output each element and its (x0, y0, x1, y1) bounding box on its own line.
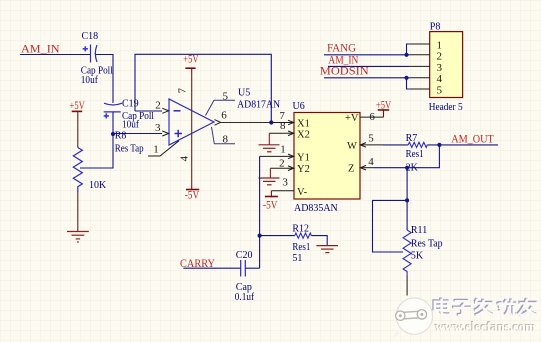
wire AM_IN to C18 (20, 54, 90, 56)
svg-text:Res Tap: Res Tap (115, 144, 144, 155)
pin 2 P8 (410, 51, 442, 63)
header P8 body (429, 21, 463, 113)
wire AM_IN (P8) (328, 65, 410, 67)
wire loop to R11 tap (373, 200, 408, 252)
svg-text:X1: X1 (297, 119, 310, 130)
value Cap 0.1uf (C20) (235, 282, 255, 303)
pin Y2 U6 (270, 158, 309, 176)
pin 5 P8 (410, 84, 443, 96)
pin 3 arrow U5 (162, 131, 168, 136)
svg-text:2: 2 (279, 158, 285, 170)
pin W U6 (347, 133, 383, 153)
svg-text:0.1uf: 0.1uf (235, 292, 255, 303)
pin Z U6 (348, 156, 374, 175)
svg-text:Z: Z (348, 164, 354, 175)
wire Z node down to R11 (406, 168, 408, 201)
svg-text:5: 5 (223, 90, 229, 102)
svg-text:7: 7 (177, 88, 189, 94)
capacitor C18 (91, 45, 98, 63)
wire node to op-amp pin3 (113, 133, 162, 135)
wire C19 to junction node (112, 112, 114, 134)
wire R11 bottom stub (406, 275, 408, 296)
svg-text:AD817AN: AD817AN (237, 99, 280, 110)
plus mark C18 (83, 46, 88, 51)
junction dot CARRY node (258, 234, 262, 238)
ground (X2) (259, 133, 280, 152)
svg-text:MODSIN: MODSIN (320, 64, 369, 78)
resistor R8 (73, 148, 82, 193)
power -5V (U6) (263, 191, 278, 212)
svg-text:R8: R8 (115, 130, 127, 141)
svg-text:2: 2 (155, 100, 161, 112)
pin 8 stub U5 (212, 127, 236, 145)
wire R7 to AM_OUT (427, 144, 498, 146)
junction dot W node (437, 143, 441, 147)
pin 2 arrow U5 (162, 108, 168, 113)
svg-text:Res Tap: Res Tap (411, 238, 443, 249)
power -5V (U5) (185, 186, 200, 202)
pin 1 P8 (410, 39, 442, 51)
svg-text:www.elecfans.com: www.elecfans.com (435, 320, 537, 335)
wire Y1 riser (259, 156, 261, 268)
junction dot at R8 tap node (111, 132, 115, 136)
resistor R7 (408, 142, 427, 147)
wire MODSIN (324, 76, 410, 89)
svg-text:-5V: -5V (263, 198, 278, 212)
svg-text:+5V: +5V (70, 98, 86, 112)
svg-text:10uf: 10uf (122, 120, 140, 131)
watermark url (434, 319, 537, 335)
resistor R12 (295, 233, 312, 238)
svg-text:C20: C20 (236, 250, 253, 261)
svg-text:AM_IN: AM_IN (21, 42, 60, 56)
svg-text:AM_OUT: AM_OUT (451, 132, 494, 146)
wire CARRY to C20 (183, 267, 240, 269)
junction dot U5 out (269, 120, 273, 124)
pin 1 stub U5 (148, 141, 179, 156)
wire W to R7 (383, 144, 408, 146)
svg-text:R12: R12 (292, 224, 309, 235)
ground (R12) (316, 246, 338, 253)
watermark text dianzifashaoyou (434, 297, 538, 315)
value Res1 2K (R7) (406, 149, 424, 173)
junction dot Z node (405, 166, 409, 170)
pin 4 P8 (410, 73, 443, 85)
svg-text:1: 1 (153, 143, 159, 155)
value Cap Poll 10uf (C19) (122, 111, 154, 131)
pin +V U6 (345, 111, 384, 124)
svg-text:X2: X2 (297, 129, 310, 140)
wire R11 top lead (406, 200, 408, 230)
pin 4 line U5 (179, 134, 192, 186)
svg-text:+5V: +5V (183, 52, 199, 66)
svg-text:+V: +V (345, 113, 359, 124)
svg-text:AD835AN: AD835AN (294, 203, 338, 214)
svg-text:5: 5 (437, 84, 443, 96)
wire W node down to Z (374, 145, 439, 168)
watermark logo (392, 298, 433, 340)
capacitor C20 (241, 260, 246, 277)
wire feedback to pin2 (135, 110, 162, 112)
svg-text:4: 4 (179, 156, 191, 162)
junction dot R11 top (405, 198, 409, 202)
svg-text:5: 5 (368, 133, 374, 145)
pin Y1 U6 (260, 143, 310, 163)
svg-text:P8: P8 (430, 21, 441, 32)
power +5V (U6) (376, 97, 392, 117)
pin X1 U6 (271, 110, 310, 130)
value Cap Poll 10uf (C18) (81, 66, 113, 87)
svg-text:Y1: Y1 (297, 152, 310, 163)
wire node down to R8 tap (80, 134, 113, 168)
svg-text:3: 3 (437, 62, 443, 74)
svg-text:R7: R7 (406, 133, 418, 144)
wire node to R12 (260, 235, 295, 237)
svg-text:C19: C19 (122, 98, 139, 109)
pin 3 P8 (410, 62, 443, 74)
svg-text:6: 6 (369, 111, 375, 123)
power +5V (R8) (70, 98, 86, 148)
ground (Y2) (259, 168, 280, 185)
wire FANG (324, 44, 410, 57)
pin 5 stub U5 (206, 90, 236, 115)
svg-text:5K: 5K (411, 251, 424, 262)
pin X2 U6 (269, 120, 310, 140)
svg-text:+5V: +5V (376, 97, 392, 111)
svg-text:U6: U6 (293, 101, 305, 112)
svg-text:10uf: 10uf (81, 75, 99, 86)
IC U6 body (293, 101, 361, 214)
svg-text:1: 1 (280, 143, 286, 155)
wire R12 to ground (311, 236, 327, 246)
svg-text:U5: U5 (238, 88, 250, 99)
wire feedback top (135, 54, 271, 122)
pin V- U6 (271, 176, 307, 198)
svg-text:4: 4 (368, 156, 374, 168)
resistor R11 (403, 230, 411, 275)
op-amp U5 (169, 99, 214, 145)
value Res Tap 5K (R11) (411, 238, 443, 261)
ground (R8) (67, 232, 89, 243)
svg-text:Res1: Res1 (292, 242, 310, 253)
wire R8 to ground (77, 192, 79, 232)
svg-text:R11: R11 (411, 225, 427, 236)
pin 7 line U5 (177, 73, 192, 134)
power +5V (U5) (183, 52, 199, 74)
svg-text:Header 5: Header 5 (429, 102, 463, 113)
plus mark C19 (104, 113, 109, 118)
svg-text:V-: V- (297, 187, 308, 198)
svg-text:-5V: -5V (185, 188, 200, 202)
svg-text:10K: 10K (89, 180, 107, 191)
svg-text:8: 8 (280, 120, 286, 132)
svg-text:51: 51 (292, 253, 302, 264)
svg-text:Y2: Y2 (297, 164, 310, 175)
svg-text:3: 3 (155, 122, 161, 134)
svg-text:6: 6 (221, 109, 227, 121)
svg-text:W: W (347, 141, 357, 152)
wire U5 out to junction (221, 122, 272, 124)
wire C18 to corner down to C19 (95, 55, 113, 104)
svg-text:CARRY: CARRY (180, 256, 215, 270)
value Res1 51 (R12) (292, 242, 310, 264)
wire C20 to Y1 riser (245, 267, 259, 269)
svg-text:8: 8 (223, 133, 229, 145)
pin 6 output arrow U5 (215, 109, 228, 125)
svg-text:Res1: Res1 (406, 149, 424, 160)
svg-text:4: 4 (437, 73, 443, 85)
capacitor C19 (104, 103, 122, 112)
svg-text:C18: C18 (82, 31, 99, 42)
svg-text:2: 2 (437, 51, 443, 63)
svg-text:3: 3 (282, 176, 288, 188)
